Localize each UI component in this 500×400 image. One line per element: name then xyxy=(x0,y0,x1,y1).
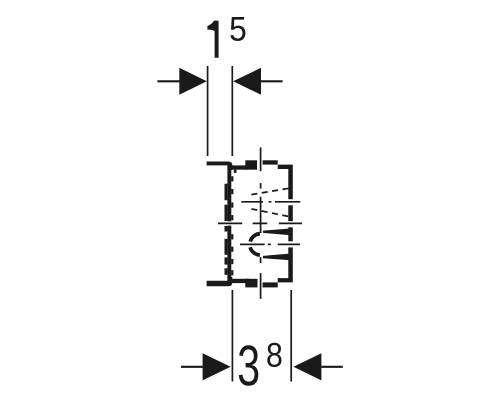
top wall right segment with corner into right wall xyxy=(278,165,293,200)
bottom dimension arrowhead left xyxy=(203,353,231,380)
bottom dimension arrow tail right xyxy=(321,366,343,368)
right wall segment 3 xyxy=(288,227,293,241)
rail right tooth 3 xyxy=(231,203,233,208)
top wall raised block left of centerline xyxy=(245,160,257,169)
rail right tooth 1 xyxy=(231,176,233,181)
hidden countersink cone upper edge (dashed) xyxy=(251,188,289,194)
dimension text 8 (mm superscript) xyxy=(267,343,281,367)
top wall raised bar right of centerline xyxy=(263,160,278,164)
hidden countersink cone lower edge (dashed) xyxy=(251,209,290,217)
bottom dimension extension line right xyxy=(290,290,292,382)
pushrod dome arc lower xyxy=(250,247,260,255)
top wall small tooth xyxy=(234,170,237,173)
serrated rail body lower xyxy=(227,226,231,286)
right wall bottom segment with corner into bottom wall xyxy=(278,247,293,282)
pushrod flare lower wedge xyxy=(263,254,291,261)
rail left tooth 2 xyxy=(225,205,228,221)
rail right tooth 2 xyxy=(231,189,233,194)
top flange xyxy=(207,162,233,171)
vertical centerline segment 1 xyxy=(260,147,262,171)
dimension text 3 (cm) xyxy=(239,345,258,386)
pushrod dome arc upper xyxy=(250,234,260,242)
rail right tooth 7 xyxy=(231,259,233,264)
rail right tooth 4 xyxy=(231,215,233,220)
rail left tooth 6 xyxy=(225,268,228,275)
bottom dimension arrow tail left xyxy=(181,366,203,368)
rail left tooth 4 xyxy=(225,239,228,255)
top dimension arrow tail right xyxy=(261,80,283,82)
top dimension arrow tail left xyxy=(157,80,179,82)
rail right tooth 5 xyxy=(231,234,233,239)
dimension text 5 (mm superscript) xyxy=(230,17,245,41)
top dimension extension line right xyxy=(231,66,233,156)
bottom flange xyxy=(207,277,233,286)
top wall inner segment xyxy=(231,165,247,169)
serrated rail body upper xyxy=(227,163,231,221)
rail right tooth 8 xyxy=(231,270,233,275)
vertical centerline segment 3 xyxy=(260,197,262,233)
vertical centerline segment 4 xyxy=(260,257,262,263)
rail left tooth 1 xyxy=(225,184,228,201)
dimension text 1 (cm) xyxy=(207,21,218,58)
upper screw axis centerline xyxy=(241,201,300,203)
vertical centerline segment 5 xyxy=(260,273,262,299)
rail left tooth 3 xyxy=(225,226,228,232)
top dimension arrowhead left xyxy=(179,68,207,95)
middle axis centerline xyxy=(218,222,302,224)
bottom wall inner segment xyxy=(231,279,249,283)
rail left tooth 5 xyxy=(225,257,228,264)
top dimension extension line left xyxy=(207,66,209,156)
bottom dimension extension line left xyxy=(231,290,233,382)
bottom wall dropped bar right of centerline xyxy=(263,282,278,287)
pushrod flare upper wedge xyxy=(263,229,291,236)
rail right tooth 6 xyxy=(231,247,233,252)
right wall segment 2 xyxy=(288,205,293,221)
top dimension arrowhead right xyxy=(233,68,261,95)
vertical centerline segment 2 xyxy=(260,183,262,189)
lower screw axis centerline xyxy=(240,243,300,245)
bottom wall dropped block left of centerline xyxy=(245,279,257,288)
bottom dimension arrowhead right xyxy=(293,353,321,380)
